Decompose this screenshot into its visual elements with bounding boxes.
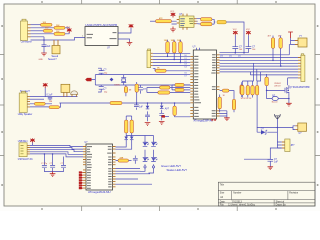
wire J1 pin3	[31, 30, 44, 32]
wire below circles	[140, 168, 154, 173]
resistor R3	[43, 28, 52, 33]
wire MCU to J2 row4	[220, 65, 299, 67]
resistor RP3	[179, 40, 183, 63]
diode D2 TVS	[261, 128, 267, 134]
svg-text:Revision: Revision	[289, 193, 299, 195]
resistor RVA	[241, 86, 244, 98]
svg-text:VCC: VCC	[66, 26, 71, 28]
power VCC above U3	[170, 11, 175, 18]
connector J1 serial header	[21, 19, 31, 40]
diode DU2	[116, 136, 134, 150]
wire U3 to R6 R7	[197, 19, 201, 24]
junction RV1 row	[272, 60, 274, 62]
resistor R4	[54, 31, 65, 35]
transistor Q1 MOSFET	[274, 83, 310, 93]
capacitor C spk	[47, 95, 53, 101]
wire LED row	[116, 169, 141, 172]
wire U5 PD rows	[116, 174, 153, 184]
svg-text:C:\Users\..\sheet1.SchDoc: C:\Users\..\sheet1.SchDoc	[228, 204, 256, 207]
resistor grid Rc	[147, 88, 190, 95]
resistor RV14	[126, 116, 133, 136]
wire R2 R4 to VCC	[65, 28, 69, 34]
svg-text:1M: 1M	[129, 89, 132, 91]
resistor RV12	[124, 85, 127, 96]
svg-text:Sheet of: Sheet of	[276, 200, 285, 203]
connector J5 USB	[19, 143, 30, 157]
power VCC decoupling 2	[246, 29, 256, 53]
power bar VCC right	[288, 32, 293, 38]
svg-text:D11: D11	[238, 56, 241, 58]
wire J4 row1	[30, 96, 78, 98]
IC U5	[83, 142, 116, 194]
wire U1 out to VCC	[118, 28, 131, 33]
junction circles LED row	[144, 166, 146, 168]
MCU U4	[190, 47, 219, 123]
resistor RV8	[240, 82, 244, 97]
ground below AV1	[159, 122, 165, 125]
svg-text:Utility Speaker: Utility Speaker	[18, 113, 33, 116]
wire J6 pins	[277, 142, 281, 148]
wire D2 branch	[257, 128, 277, 149]
svg-text:Green LED-5V?: Green LED-5V?	[161, 165, 182, 168]
wire J4 row2	[30, 98, 44, 100]
wire R5 to U3	[172, 21, 177, 24]
module B4	[61, 84, 70, 96]
wire MCU to J2 row2	[220, 59, 299, 61]
svg-text:Date:: Date:	[220, 200, 226, 203]
wire J4 row5	[30, 106, 49, 108]
junction USB caps	[44, 153, 46, 155]
svg-text:ATmega328P-AU: ATmega328P-AU	[194, 120, 214, 123]
resistor RP1	[166, 40, 170, 57]
ground USB caps	[50, 172, 56, 177]
net labels MCU left	[185, 55, 187, 77]
wire J4 row4	[30, 103, 52, 105]
resistor grid Ra	[147, 86, 190, 89]
power VCC at USB	[30, 139, 35, 143]
resistor R1	[41, 22, 53, 26]
resistor grid Rb	[172, 83, 190, 86]
connector J2 right	[298, 54, 305, 82]
power VCC decoupling 1	[232, 29, 242, 53]
connector J4 speaker	[19, 91, 30, 112]
capacitor C1	[42, 40, 52, 53]
IC U3	[177, 14, 197, 30]
svg-text:1uF: 1uF	[47, 46, 52, 48]
resistor RV3 gate pullup	[265, 74, 269, 90]
capacitor CX2	[98, 85, 107, 92]
svg-text:20P-V2: 20P-V2	[274, 86, 280, 88]
power VCC at speaker	[43, 84, 48, 89]
power VCC arrow top-left	[66, 26, 71, 33]
wire Rs2 jog to rail	[59, 103, 60, 107]
svg-text:Q? IRLML2502TRPBF: Q? IRLML2502TRPBF	[290, 87, 311, 89]
wire antenna down	[276, 119, 278, 127]
wire row bends to resistors	[242, 63, 260, 85]
ground MCU right	[220, 111, 230, 121]
resistor RH1	[220, 89, 235, 99]
capacitor CU1	[41, 154, 53, 172]
wire U1 adj to ground	[118, 39, 130, 42]
svg-text:D7: D7	[185, 75, 187, 77]
wire U3 left pins	[150, 20, 156, 22]
svg-text:VCC: VCC	[170, 11, 175, 13]
diode AV1	[160, 102, 170, 113]
junction rail 1	[136, 102, 138, 104]
resistor RV13	[125, 116, 128, 136]
connector J6 small	[282, 139, 295, 152]
junction gate	[266, 90, 268, 92]
svg-text:D4: D4	[185, 67, 187, 69]
svg-text:104: 104	[252, 49, 255, 51]
capacitor CX1	[98, 68, 107, 74]
resistor R5	[156, 17, 172, 23]
ground bottom right	[268, 167, 274, 170]
junction L1 rail	[243, 52, 245, 54]
power VCC at U1	[129, 25, 134, 29]
ferrite bead L1	[217, 20, 226, 23]
svg-text:Seeed-?: Seeed-?	[48, 59, 57, 61]
wire crystal loop	[92, 75, 191, 85]
port arrow XTAL	[85, 78, 91, 81]
wire RVD down to bus	[257, 98, 295, 130]
capacitor CU2	[50, 154, 56, 172]
wire bar to B2	[291, 38, 296, 45]
svg-text:16MHz: 16MHz	[114, 85, 120, 87]
capacitor CU3	[53, 157, 66, 172]
port arrow AVCC	[161, 115, 169, 117]
svg-text:File:: File:	[220, 205, 225, 207]
resistor R6	[201, 18, 213, 21]
svg-text:Status LED-5V?: Status LED-5V?	[167, 169, 188, 172]
svg-text:LM1117MPX-ADJ/NOPB: LM1117MPX-ADJ/NOPB	[86, 24, 118, 27]
wire J2 row8 to Q1 drain	[288, 78, 298, 85]
wire J2 row7	[250, 72, 298, 75]
junction RV2 row	[280, 65, 282, 67]
svg-text:D13: D13	[220, 56, 223, 58]
wire VBUS	[30, 143, 83, 147]
resistor RV15	[218, 95, 221, 113]
wire J1 pin5 to regulator	[31, 37, 86, 40]
ground below Q1	[286, 103, 292, 106]
wire GND row	[30, 154, 83, 157]
wire MCU to J2 row1	[220, 57, 299, 59]
svg-text:0.1uF: 0.1uF	[47, 95, 53, 97]
wire MCU top stub	[197, 48, 200, 50]
net labels above J2 rows	[220, 56, 241, 58]
svg-text:Seeed: Seeed	[52, 56, 59, 58]
speaker dome LS1	[71, 91, 78, 97]
ground below D3	[145, 123, 151, 126]
junction on J1 bottom wire	[43, 39, 45, 41]
rail wire	[59, 102, 190, 104]
crystal X1	[114, 75, 126, 87]
module B1	[52, 40, 61, 58]
junction diamond	[110, 78, 114, 82]
wire J3 row6	[153, 68, 191, 71]
resistor RV1	[271, 36, 274, 61]
svg-text:Size: Size	[220, 193, 225, 195]
wire gate	[267, 89, 285, 91]
ground below U3	[170, 27, 176, 32]
module B5	[295, 123, 306, 135]
junction antenna	[277, 127, 279, 129]
svg-text:1K 1K 1K 1K: 1K 1K 1K 1K	[241, 98, 253, 100]
crystal module B2	[295, 36, 307, 47]
svg-text:22p: 22p	[104, 92, 107, 94]
resistor R7	[201, 22, 213, 25]
svg-text:22p: 22p	[104, 72, 107, 74]
resistor RP2	[173, 40, 177, 60]
capacitor below AV1	[159, 114, 164, 121]
regulator U1	[82, 24, 118, 50]
capacitor CB	[268, 159, 279, 164]
wire L1 right down to rail	[226, 22, 244, 53]
ground below C1	[41, 53, 47, 56]
svg-text:ATmega16U2-MU: ATmega16U2-MU	[88, 191, 111, 194]
svg-text:C?: C?	[61, 163, 63, 165]
resistor R10 on rail	[110, 101, 122, 104]
svg-text:C? 47p: C? 47p	[41, 163, 47, 165]
wire VCC stem	[44, 88, 46, 97]
title block	[218, 182, 315, 207]
svg-text:2: 2	[82, 36, 83, 38]
svg-text:4K7: 4K7	[268, 35, 271, 37]
svg-text:Drawn By:: Drawn By:	[276, 204, 287, 207]
connector J3	[147, 49, 153, 68]
resistor RVB	[246, 86, 249, 98]
wire D-	[30, 148, 83, 150]
junction Q1 source	[288, 98, 290, 100]
svg-text:Buzzer: Buzzer	[272, 101, 278, 104]
resistor RVC	[251, 86, 254, 98]
ground at U1	[127, 42, 133, 46]
wire MCU to J2 row3	[220, 62, 299, 64]
svg-text:GND: GND	[39, 59, 44, 61]
capacitor CV1	[138, 85, 147, 94]
wire J1 pin1	[31, 24, 41, 26]
LED DL1	[143, 136, 149, 166]
svg-text:Number: Number	[233, 192, 241, 195]
wire D+	[30, 150, 83, 152]
diode DU1	[116, 136, 129, 148]
value labels RP	[164, 40, 182, 42]
resistor R9	[155, 68, 166, 73]
svg-text:USB Mini-B 5 Pin: USB Mini-B 5 Pin	[18, 159, 34, 161]
wire J1 pin2	[31, 27, 55, 29]
resistor R2	[54, 25, 65, 29]
resistor RV17	[232, 99, 235, 112]
wire LED tops	[126, 135, 153, 137]
svg-text:1uF: 1uF	[274, 162, 279, 164]
capacitor C below rail	[134, 103, 143, 110]
svg-text:7/31/2013: 7/31/2013	[232, 201, 243, 203]
svg-text:D12: D12	[229, 56, 232, 58]
resistor RV10	[173, 102, 190, 117]
buzzer B6 ellipse	[267, 90, 289, 103]
resistor grid Rd	[172, 85, 190, 92]
svg-text:C?: C?	[50, 163, 52, 165]
wire J1 pin4	[31, 33, 55, 35]
svg-text:22R: 22R	[120, 157, 124, 159]
resistor RV11	[135, 82, 138, 103]
wire MCU to J2 row6	[220, 71, 299, 73]
capacitor CXU	[133, 156, 138, 164]
svg-text:AV?: AV?	[165, 108, 170, 111]
resistor Rs2	[49, 101, 60, 108]
wire ID	[30, 152, 83, 155]
port arrows U5 left pins	[79, 171, 83, 189]
wire J3 rows to MCU	[153, 53, 191, 65]
svg-text:D6: D6	[185, 72, 187, 74]
wire Q1 source to ground	[288, 93, 290, 103]
antenna symbol	[275, 114, 281, 119]
svg-text:104: 104	[239, 49, 242, 51]
svg-text:Title: Title	[220, 183, 225, 186]
no-erc marks	[212, 119, 216, 121]
resistor RVD	[255, 86, 258, 98]
wire bar to J2 row1	[288, 44, 290, 55]
capacitor C below D3	[145, 115, 150, 121]
junction decoupling	[235, 52, 237, 54]
LED DL2	[151, 136, 157, 166]
svg-text:Com-Importer: Com-Importer	[21, 41, 32, 44]
resistor Rs1	[34, 102, 45, 105]
resistor RV2	[279, 36, 282, 67]
wire J6 to cap	[244, 148, 282, 167]
resistor R11	[116, 157, 132, 162]
wire MCU to J2 row5	[220, 68, 299, 70]
svg-text:1uF: 1uF	[139, 107, 144, 109]
wire decoupling row	[220, 52, 249, 54]
diode chain D3	[146, 102, 150, 115]
wire row y54.8	[220, 54, 290, 56]
wire R6 to L1	[212, 19, 215, 24]
